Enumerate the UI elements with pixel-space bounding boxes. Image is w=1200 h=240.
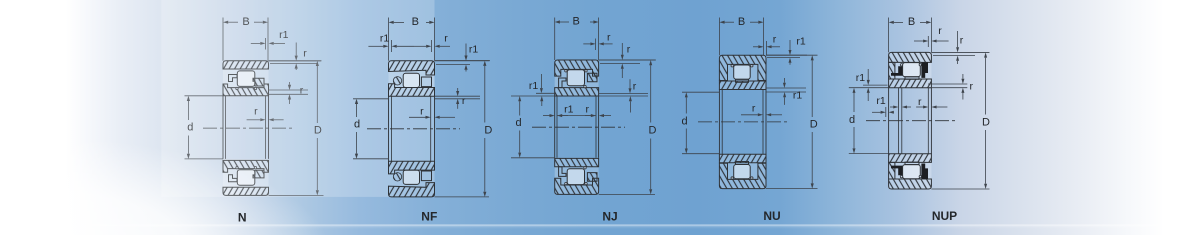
roller NJ	[567, 169, 584, 185]
roller N	[237, 71, 255, 87]
dim r mid-right vertical (NJ)	[599, 93, 648, 95]
dim D (NJ)	[599, 59, 655, 61]
thrust washer NUP (black L)	[891, 166, 903, 176]
svg-text:D: D	[982, 116, 990, 128]
dim r mid-right vertical (NUP)	[928, 83, 967, 85]
svg-text:D: D	[484, 124, 492, 136]
bearing NF body tint	[389, 61, 435, 97]
outer ring NUP (hatched band)	[889, 179, 932, 189]
axis NF	[367, 128, 460, 130]
rivets NJ	[565, 70, 567, 72]
outer ring NJ (hatched band, two flanges)	[555, 178, 599, 194]
svg-text:r: r	[773, 34, 777, 46]
inner ring NUP	[889, 154, 932, 163]
dim r mid horizontal (NF)	[409, 116, 426, 118]
svg-text:r: r	[960, 35, 964, 47]
dim r1 right vertical (NF)	[435, 60, 491, 62]
flange piece NF right	[421, 171, 431, 181]
svg-text:NUP: NUP	[932, 209, 957, 223]
svg-text:r: r	[607, 32, 611, 44]
svg-text:B: B	[573, 16, 580, 28]
svg-text:r1: r1	[856, 72, 865, 84]
outer ring NF (hatched band, right flange)	[389, 61, 435, 75]
flange NJ right (hatched)	[587, 173, 597, 182]
dim r top2 vertical (NUP)	[931, 51, 989, 53]
dim r1 top-left (NF)	[391, 40, 393, 52]
flange piece NF right	[421, 77, 431, 87]
cage N left	[229, 75, 238, 82]
svg-text:r1: r1	[876, 95, 885, 107]
dim B (NJ)	[554, 18, 556, 61]
svg-text:r1: r1	[529, 80, 538, 92]
dim B (N)	[222, 18, 224, 61]
bearing NUP body tint	[889, 52, 932, 87]
outer ring NF (hatched band, right flange)	[389, 183, 435, 197]
svg-text:N: N	[238, 211, 247, 225]
svg-text:d: d	[849, 114, 855, 126]
cage NJ left	[559, 78, 566, 88]
bearing N body tint	[223, 61, 269, 96]
inner ring NF with left flange	[389, 84, 435, 97]
dim r mid horizontal (NU)	[741, 114, 758, 116]
dim r1 mid-right vertical (NU)	[766, 87, 806, 89]
loose rib NUP (black slab)	[921, 62, 928, 78]
dim D (NU)	[766, 54, 818, 56]
dim r top (NJ)	[595, 39, 597, 51]
dim r mid horizontal (NUP)	[890, 106, 893, 108]
svg-text:NJ: NJ	[602, 210, 617, 224]
svg-text:r: r	[969, 80, 973, 92]
dim r1 top-right vertical (NU)	[766, 54, 807, 56]
dim D (NUP)	[931, 51, 989, 53]
svg-text:B: B	[412, 16, 419, 28]
rivets NJ	[565, 182, 567, 184]
flange NJ right (hatched)	[587, 73, 597, 82]
cage NU below roller	[736, 162, 749, 165]
svg-text:d: d	[681, 116, 687, 128]
cage N right	[253, 170, 264, 178]
rivets NUP	[900, 64, 902, 66]
roller NU	[734, 65, 751, 79]
roller N	[237, 170, 255, 186]
outer ring NUP (hatched band)	[889, 52, 932, 62]
svg-text:r: r	[420, 105, 424, 117]
outer ring NU (hatched band, two flanges)	[719, 55, 766, 80]
outer ring N (hatched band)	[223, 61, 269, 69]
dim d (N)	[185, 95, 224, 97]
svg-text:r1: r1	[380, 33, 389, 45]
svg-text:d: d	[516, 117, 522, 129]
dim r top-right (N)	[269, 60, 322, 62]
outer ring NU (hatched band, two flanges)	[719, 163, 766, 188]
inner ring NUP	[889, 79, 932, 88]
inner ring N with flanges	[223, 160, 269, 172]
svg-text:D: D	[810, 119, 818, 131]
roller NU	[734, 165, 751, 179]
inner ring left flange NUP (hatched)	[889, 62, 895, 79]
roller NUP	[903, 165, 921, 179]
cage NU below roller	[736, 79, 749, 82]
dim r1 left vertical (NJ)	[536, 92, 555, 94]
roller NF	[403, 73, 419, 87]
svg-text:d: d	[354, 119, 360, 131]
dim r mid-right (N)	[269, 89, 309, 91]
inner ring NF with left flange	[389, 161, 435, 174]
dim r1 left horizontal (NUP)	[885, 107, 887, 117]
svg-text:D: D	[649, 125, 657, 137]
inner ring left flange NUP (hatched)	[889, 162, 895, 179]
svg-text:r: r	[627, 44, 631, 56]
dim r top (NUP)	[927, 36, 929, 47]
inner ring NU	[719, 81, 766, 90]
bore face lines NJ	[554, 96, 556, 158]
cage NF left (hatched round)	[393, 173, 401, 181]
dim d (NU)	[682, 91, 719, 93]
axis NU	[698, 121, 790, 123]
cage NUP below roller	[905, 77, 919, 80]
svg-text:r: r	[938, 25, 942, 37]
dim r top-right (NF)	[430, 40, 432, 52]
bearing NJ body tint	[555, 60, 599, 96]
cage NJ left	[559, 167, 566, 177]
axis NJ	[532, 126, 625, 128]
outer ring NJ (hatched band, two flanges)	[555, 60, 599, 76]
roller NJ	[567, 70, 584, 86]
loose rib NUP (black slab)	[921, 164, 928, 180]
roller NUP	[903, 63, 921, 77]
dim d (NUP)	[849, 153, 889, 155]
cage N left	[229, 175, 238, 182]
svg-text:r1: r1	[564, 103, 573, 115]
dim r top (NU)	[765, 41, 767, 55]
svg-text:r: r	[918, 96, 922, 108]
bore face lines NF	[388, 96, 390, 161]
inner ring NJ	[555, 88, 599, 96]
bore face lines NU	[718, 90, 720, 155]
inner ring N with flanges	[223, 84, 269, 96]
inner ring NJ	[555, 158, 599, 166]
dim B (NU)	[718, 18, 720, 56]
dim d (NF)	[353, 98, 389, 100]
inner ring NU	[719, 154, 766, 163]
dim B (NF)	[388, 18, 390, 61]
svg-text:r: r	[633, 81, 637, 93]
cage NF left (hatched round)	[393, 77, 401, 85]
axis NUP	[866, 120, 957, 122]
svg-text:B: B	[908, 16, 915, 28]
dim r mid-right (NF)	[435, 95, 481, 97]
bore face lines NUP	[888, 88, 890, 154]
svg-text:r: r	[586, 104, 590, 116]
dim D (N)	[269, 60, 322, 62]
roller NF	[403, 170, 419, 184]
svg-text:r: r	[752, 103, 756, 115]
bearing NU body tint	[719, 55, 766, 89]
svg-text:r: r	[462, 95, 466, 107]
svg-text:NU: NU	[763, 209, 780, 223]
dim r1 and r middle (NJ)	[543, 115, 550, 117]
rivets NU	[731, 65, 733, 67]
dim r1 (N)	[265, 38, 267, 50]
svg-text:r1: r1	[796, 36, 805, 48]
svg-text:r1: r1	[793, 89, 802, 101]
svg-text:NF: NF	[421, 210, 437, 224]
dim D (NF)	[435, 60, 490, 62]
dim B (NUP)	[888, 18, 890, 53]
dim r top2 vertical (NJ)	[599, 59, 656, 61]
rivets NU	[731, 177, 733, 179]
cage NUP below roller	[905, 162, 919, 165]
dim d (NJ)	[511, 157, 555, 159]
axis N	[203, 127, 294, 129]
bore face lines N	[222, 96, 224, 159]
dim r1 left vertical (NUP)	[863, 84, 888, 86]
cage N right	[253, 78, 264, 86]
thrust washer NUP (black L)	[891, 66, 903, 76]
svg-text:r: r	[444, 33, 448, 45]
cage rivets N	[236, 87, 238, 89]
cage rivets N	[236, 167, 238, 169]
outer ring N (hatched band)	[223, 187, 269, 195]
dim r mid horizontal (N)	[247, 119, 261, 121]
svg-text:B: B	[738, 16, 745, 28]
svg-text:r1: r1	[469, 44, 478, 56]
rivets NUP	[900, 175, 902, 177]
